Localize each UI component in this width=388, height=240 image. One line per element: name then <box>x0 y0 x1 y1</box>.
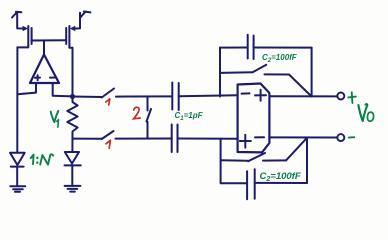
svg-text:C1=1pF: C1=1pF <box>175 111 204 122</box>
svg-text:C2=100fF: C2=100fF <box>262 53 298 64</box>
svg-text:C2=100fF: C2=100fF <box>260 171 301 183</box>
